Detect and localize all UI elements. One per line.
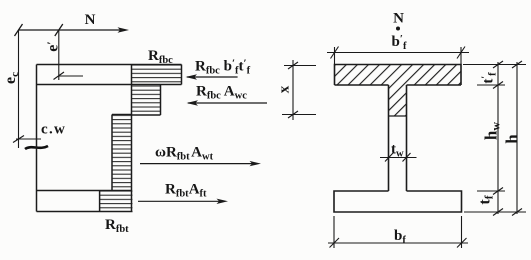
I-section bottom flange [334,191,462,212]
arrow omega R_fbt A_wt [140,145,261,167]
svg-text:ωRfbtAwt: ωRfbtAwt [155,145,214,163]
dimension b'_f [327,47,469,65]
stress block R_fbc flange (hatched) [132,65,182,85]
stress diagram outline [37,65,182,212]
dimension h [512,61,522,216]
svg-text:N: N [393,11,404,27]
svg-text:N: N [85,12,96,28]
dimension x [282,60,316,120]
stress block web compression (hatched) [132,85,161,116]
stress block web tension (hatched) [112,115,132,191]
svg-text:h: h [503,134,522,144]
arrow R_fbc A_wc [187,84,268,106]
I-section web [389,85,407,191]
dimension b_f [328,216,468,248]
dimension t_w [380,153,417,162]
svg-text:Rfbc Awc: Rfbc Awc [196,84,247,102]
svg-text:b′f: b′f [392,33,407,52]
svg-text:tw: tw [391,142,404,160]
svg-text:t′f: t′f [481,72,499,84]
svg-text:Rfbt: Rfbt [105,217,129,235]
I-section top flange (hatched) [335,65,462,86]
dimension t'_f / h_w / t_f line [493,61,503,216]
centroid mark c.w [25,122,66,150]
svg-text:tf: tf [477,195,496,204]
stress block flange tension (hatched) [100,191,133,212]
svg-text:bf: bf [394,228,406,246]
dimension e' [54,30,84,80]
svg-text:Rfbc b′ft′f: Rfbc b′ft′f [195,58,251,77]
force arrow N [15,24,130,36]
load point N (right) [393,11,404,31]
dimension e_c [13,30,41,148]
svg-text:x: x [277,85,293,93]
svg-text:Rfbc: Rfbc [148,48,173,66]
svg-text:ec: ec [2,72,21,84]
svg-text:c.w: c.w [41,122,66,138]
svg-text:hw: hw [482,122,503,140]
right extension lines [463,65,526,213]
svg-text:RfbtAft: RfbtAft [165,182,207,200]
arrow R_fbt A_ft [138,182,228,205]
neutral axis line (x depth) [389,115,407,117]
arrow R_fbc b'f t'f [186,58,251,80]
